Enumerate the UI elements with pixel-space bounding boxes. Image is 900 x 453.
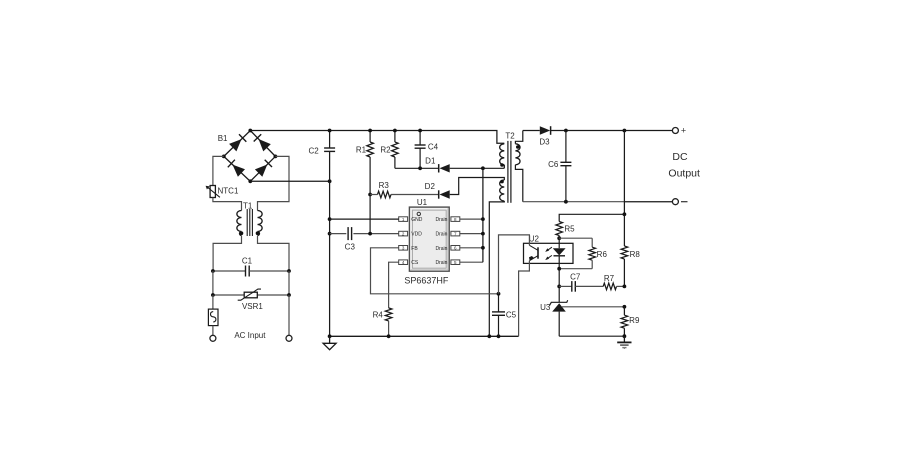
wire - output rail	[523, 200, 673, 204]
wire top rail from bridge to T2 primary	[250, 131, 504, 144]
svg-text:R5: R5	[564, 224, 575, 233]
wire sense divider vertical	[623, 131, 625, 247]
optocoupler U2 box	[524, 235, 574, 264]
svg-text:NTC1: NTC1	[218, 186, 239, 195]
svg-text:+: +	[681, 126, 686, 136]
wire snubber row	[395, 166, 439, 170]
svg-text:D1: D1	[425, 156, 436, 165]
node C3 left junction	[328, 232, 332, 236]
transformer T2 secondary winding	[505, 131, 522, 202]
output terminal -	[672, 199, 687, 205]
svg-text:AC Input: AC Input	[234, 331, 266, 340]
capacitor C2	[308, 129, 335, 156]
svg-text:VDD: VDD	[411, 232, 422, 238]
wire C1 to VSR1 row left	[212, 271, 214, 295]
svg-text:C4: C4	[428, 143, 439, 152]
wire aux winding return	[489, 201, 504, 336]
svg-text:Drain: Drain	[435, 260, 447, 266]
svg-text:C1: C1	[242, 256, 253, 265]
svg-text:Drain: Drain	[435, 217, 447, 223]
svg-text:R2: R2	[380, 145, 391, 154]
wire R5 branch	[559, 214, 624, 221]
wire drain pin 7	[460, 233, 483, 235]
resistor R1	[356, 129, 374, 234]
svg-text:R7: R7	[604, 274, 615, 283]
label AC Input	[234, 331, 266, 340]
wire VSR1 right to AC terminal	[288, 295, 290, 335]
wire drain pin 5	[460, 261, 483, 263]
primary ground rail	[328, 334, 519, 338]
capacitor C1	[211, 256, 291, 276]
transformer T2 core	[508, 141, 511, 203]
wire NTC1 to T1 left winding	[213, 198, 242, 211]
resistor R5	[556, 222, 575, 239]
wire T1 right bottom to C1 right node	[258, 236, 290, 272]
svg-text:GND: GND	[411, 217, 423, 223]
resistor R4	[373, 308, 392, 336]
svg-text:R1: R1	[356, 145, 367, 154]
AC input terminal left	[210, 335, 216, 341]
svg-text:C3: C3	[345, 242, 356, 251]
wire U3 ref to divider	[562, 305, 626, 309]
node R3 tap junction	[368, 193, 372, 197]
primary ground symbol	[323, 336, 336, 349]
resistor R8	[621, 246, 640, 286]
resistor R7	[575, 274, 626, 290]
svg-text:Drain: Drain	[435, 246, 447, 252]
secondary ground symbol	[617, 336, 631, 349]
svg-text:T1: T1	[243, 202, 253, 211]
capacitor C5	[492, 292, 517, 336]
AC input terminal right	[286, 335, 292, 341]
wire main ground bus vertical	[329, 131, 331, 337]
svg-text:FB: FB	[411, 246, 418, 252]
node C7 branch junction	[557, 285, 561, 289]
output terminal +	[672, 126, 686, 136]
optocoupler U2 phototransistor	[529, 245, 538, 261]
svg-text:C7: C7	[570, 273, 581, 282]
resistor R6	[559, 238, 607, 269]
node GND pin junction	[328, 217, 332, 221]
svg-text:U3: U3	[540, 303, 551, 312]
diode D2	[425, 182, 450, 199]
node LED cathode junction	[557, 267, 561, 271]
optocoupler U2 LED	[545, 238, 565, 269]
shunt regulator U3	[540, 300, 568, 336]
wire drain pin 8	[460, 218, 483, 220]
wire bridge left node to NTC1	[213, 156, 224, 185]
svg-text:R8: R8	[630, 250, 641, 259]
svg-text:DC: DC	[672, 151, 688, 163]
wire U2 collector to feedback node	[499, 235, 530, 294]
common-mode choke T1	[237, 202, 262, 237]
resistor R9	[621, 307, 640, 336]
wire drain pin 6	[460, 247, 483, 249]
capacitor C3	[330, 227, 399, 251]
wire LED cathode down	[558, 269, 560, 303]
varistor VSR1	[211, 289, 291, 311]
svg-text:D3: D3	[539, 137, 550, 146]
svg-text:R9: R9	[629, 316, 640, 325]
wire GND pin 1	[330, 218, 399, 220]
bridge rectifier B1	[218, 129, 278, 184]
svg-text:Drain: Drain	[435, 232, 447, 238]
svg-text:D2: D2	[425, 182, 436, 191]
svg-text:CS: CS	[411, 260, 419, 266]
capacitor C7	[559, 273, 581, 292]
capacitor C6	[548, 131, 571, 202]
wire D1 anode to primary bottom	[450, 166, 505, 170]
wire U3 anode to secondary ground	[559, 334, 626, 338]
node LED anode junction	[557, 236, 561, 240]
transformer T2 primary winding	[500, 144, 505, 169]
svg-text:U1: U1	[417, 198, 428, 207]
wire T1 left bottom to C1 left node	[213, 236, 241, 272]
transformer T2 auxiliary winding	[500, 180, 505, 201]
svg-text:Output: Output	[668, 167, 700, 179]
svg-text:R3: R3	[379, 181, 390, 190]
wire bridge right node down to T1 right winding	[258, 156, 290, 210]
svg-text:C6: C6	[548, 160, 559, 169]
resistor R2	[380, 129, 398, 169]
wire FB pin 3 to feedback node	[371, 248, 499, 294]
resistor R3	[370, 181, 439, 198]
wire drain bus vertical	[481, 168, 485, 262]
capacitor C4	[415, 129, 439, 169]
svg-text:SP6637HF: SP6637HF	[404, 276, 449, 286]
svg-text:R4: R4	[373, 310, 384, 319]
node primary DC- junction	[328, 179, 332, 183]
svg-text:U2: U2	[529, 235, 540, 244]
wire bridge bottom to primary ground	[250, 180, 329, 182]
svg-text:C5: C5	[506, 311, 517, 320]
wire CS pin 4 to R4	[389, 262, 399, 308]
diode D1	[425, 156, 450, 172]
wire C1 to VSR1 row right	[288, 271, 290, 295]
svg-text:C2: C2	[308, 147, 319, 156]
diode D3	[523, 126, 551, 146]
wire + output rail	[551, 129, 673, 133]
svg-text:R6: R6	[597, 250, 608, 259]
thermistor NTC1	[206, 186, 239, 198]
wire U2 emitter to ground rail	[519, 261, 530, 337]
wire D2 anode to aux winding	[450, 178, 505, 195]
label DC Output	[668, 151, 700, 180]
op-amp U1 SP6637HF controller IC	[399, 198, 460, 285]
svg-text:VSR1: VSR1	[242, 302, 263, 311]
svg-text:B1: B1	[218, 134, 228, 143]
svg-text:T2: T2	[505, 131, 515, 140]
node R5 branch junction	[623, 212, 627, 216]
fuse F1	[208, 295, 218, 335]
